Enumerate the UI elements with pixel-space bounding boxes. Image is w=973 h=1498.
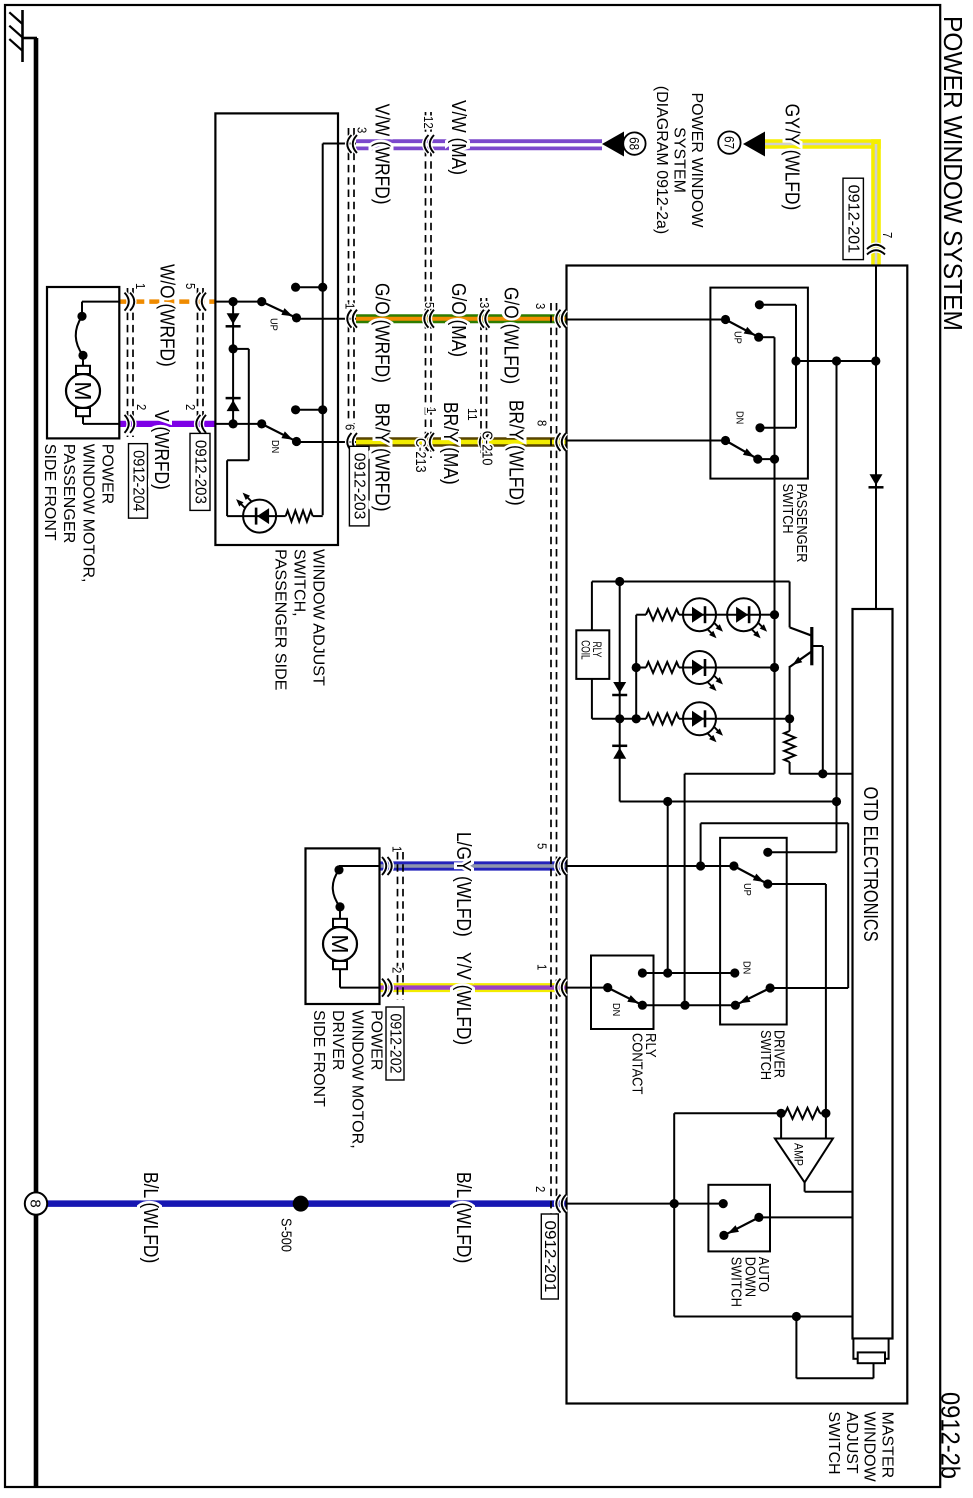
svg-text:MASTER: MASTER	[878, 1412, 895, 1479]
svg-text:POWER WINDOW: POWER WINDOW	[688, 92, 705, 227]
svg-text:DN: DN	[741, 961, 753, 974]
svg-text:COIL: COIL	[579, 640, 593, 660]
svg-text:UP: UP	[267, 318, 279, 331]
svg-text:12: 12	[421, 116, 436, 129]
svg-text:PASSENGER: PASSENGER	[60, 444, 77, 544]
svg-text:1: 1	[535, 964, 550, 970]
svg-text:3: 3	[355, 127, 370, 133]
svg-text:B/L (WLFD): B/L (WLFD)	[139, 1172, 161, 1263]
svg-text:DRIVER: DRIVER	[329, 1010, 346, 1070]
svg-text:UP: UP	[741, 883, 753, 896]
svg-text:WINDOW: WINDOW	[861, 1412, 878, 1483]
svg-text:SYSTEM: SYSTEM	[671, 127, 688, 193]
svg-text:S-500: S-500	[278, 1218, 294, 1252]
svg-text:1: 1	[343, 303, 358, 309]
svg-text:1: 1	[133, 283, 148, 289]
svg-text:DN: DN	[269, 440, 281, 453]
svg-text:2: 2	[183, 404, 198, 410]
svg-text:BR/Y (WLFD): BR/Y (WLFD)	[505, 400, 527, 506]
svg-text:W/O (WRFD): W/O (WRFD)	[156, 264, 178, 367]
svg-text:0912-203: 0912-203	[191, 440, 208, 504]
svg-text:WINDOW MOTOR,: WINDOW MOTOR,	[348, 1010, 365, 1149]
svg-text:POWER: POWER	[99, 444, 116, 504]
svg-text:WINDOW MOTOR,: WINDOW MOTOR,	[79, 444, 96, 583]
svg-text:WINDOW ADJUST: WINDOW ADJUST	[310, 549, 327, 686]
svg-text:0912-201: 0912-201	[845, 185, 862, 253]
svg-text:PASSENGER SIDE: PASSENGER SIDE	[272, 549, 289, 690]
svg-text:SWITCH: SWITCH	[779, 484, 795, 534]
svg-text:OTD ELECTRONICS: OTD ELECTRONICS	[859, 787, 881, 942]
svg-text:0912-202: 0912-202	[386, 1014, 403, 1074]
svg-text:BR/Y (WRFD): BR/Y (WRFD)	[371, 403, 393, 512]
svg-text:5: 5	[183, 283, 198, 289]
svg-text:67: 67	[721, 136, 736, 149]
svg-text:5: 5	[422, 302, 437, 308]
svg-text:SWITCH,: SWITCH,	[291, 549, 308, 617]
svg-text:SIDE FRONT: SIDE FRONT	[310, 1010, 327, 1107]
svg-text:DN: DN	[733, 411, 745, 424]
svg-text:1: 1	[390, 846, 405, 852]
svg-text:2: 2	[533, 1186, 548, 1192]
svg-text:0912-204: 0912-204	[129, 450, 146, 512]
svg-text:6: 6	[343, 424, 358, 430]
svg-text:0912-203: 0912-203	[351, 453, 368, 520]
svg-text:11: 11	[465, 408, 480, 421]
svg-text:68: 68	[626, 137, 641, 150]
svg-text:V (WRFD): V (WRFD)	[150, 410, 172, 490]
svg-text:DN: DN	[610, 1003, 622, 1016]
svg-text:V/W (WRFD): V/W (WRFD)	[371, 104, 393, 205]
svg-text:CONTACT: CONTACT	[628, 1033, 644, 1095]
svg-text:BR/Y (MA): BR/Y (MA)	[439, 402, 461, 485]
svg-text:C-213: C-213	[412, 438, 428, 473]
svg-text:SIDE FRONT: SIDE FRONT	[41, 444, 58, 541]
svg-text:C-210: C-210	[479, 431, 495, 466]
svg-text:7: 7	[880, 232, 895, 238]
svg-text:8: 8	[535, 420, 550, 426]
svg-text:G/O (WLFD): G/O (WLFD)	[500, 287, 522, 384]
svg-text:SWITCH: SWITCH	[825, 1412, 842, 1475]
svg-text:2: 2	[390, 967, 405, 973]
svg-text:3: 3	[477, 302, 492, 308]
svg-text:POWER WINDOW SYSTEM: POWER WINDOW SYSTEM	[938, 16, 966, 331]
svg-text:2: 2	[134, 404, 149, 410]
svg-text:UP: UP	[732, 331, 744, 344]
svg-text:0912-201: 0912-201	[541, 1221, 558, 1293]
svg-text:Y/V (WLFD): Y/V (WLFD)	[452, 952, 474, 1045]
svg-text:3: 3	[533, 303, 548, 309]
svg-text:1: 1	[424, 407, 439, 413]
svg-text:V/W (MA): V/W (MA)	[447, 100, 469, 175]
svg-text:5: 5	[535, 843, 550, 849]
svg-text:M: M	[70, 381, 96, 400]
svg-text:AMP: AMP	[792, 1143, 806, 1166]
svg-text:(DIAGRAM 0912-2a): (DIAGRAM 0912-2a)	[653, 86, 670, 235]
svg-text:0912-2b: 0912-2b	[936, 1392, 964, 1479]
svg-text:B/L (WLFD): B/L (WLFD)	[452, 1172, 474, 1263]
svg-text:M: M	[327, 934, 353, 953]
svg-text:SWITCH: SWITCH	[728, 1257, 744, 1307]
svg-text:SWITCH: SWITCH	[757, 1030, 773, 1080]
svg-text:8: 8	[27, 1199, 44, 1207]
svg-text:ADJUST: ADJUST	[843, 1412, 860, 1475]
svg-text:GY/Y (WLFD): GY/Y (WLFD)	[780, 104, 802, 211]
svg-text:G/O (WRFD): G/O (WRFD)	[371, 283, 393, 383]
svg-text:POWER: POWER	[368, 1010, 385, 1070]
svg-text:G/O (MA): G/O (MA)	[447, 283, 469, 357]
svg-text:L/GY (WLFD): L/GY (WLFD)	[452, 832, 474, 937]
